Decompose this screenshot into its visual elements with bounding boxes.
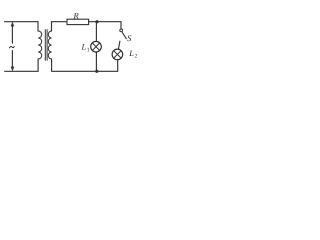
switch S blade (122, 33, 126, 39)
svg-text:2: 2 (135, 54, 138, 60)
svg-text:R: R (73, 11, 80, 21)
arrowhead down (11, 67, 14, 71)
arrowhead up (11, 22, 14, 26)
lamp L1 top lead (95, 22, 97, 42)
AC tilde symbol (10, 46, 15, 47)
svg-text:L: L (128, 48, 134, 58)
AC source ~ terminal line upper (11, 25, 13, 44)
AC source ~ terminal line lower (11, 51, 13, 69)
transformer secondary coil (48, 31, 51, 59)
transformer primary bottom lead (37, 59, 39, 71)
transformer secondary bottom lead (51, 59, 53, 71)
wire secondary top to resistor (52, 21, 68, 23)
wire switch to lamp L2 (118, 41, 120, 49)
node junction top (95, 20, 98, 23)
resistor R box (67, 19, 89, 24)
wire resistor to node (89, 21, 97, 23)
svg-text:S: S (127, 33, 132, 43)
transformer primary top lead (37, 22, 39, 31)
wire top-left segment (5, 21, 38, 23)
transformer core line right (46, 30, 48, 61)
wire node to switch corner (97, 22, 121, 29)
transformer core line left (44, 30, 46, 61)
lamp L1 bottom lead (95, 52, 97, 71)
wire bottom-right segment (52, 70, 118, 72)
switch S contact circle (120, 29, 123, 32)
lamp L1 (91, 41, 102, 52)
svg-text:1: 1 (87, 47, 90, 53)
node junction bottom (95, 70, 98, 73)
lamp L2 (112, 49, 123, 60)
wire bottom-left segment (5, 70, 38, 72)
svg-text:L: L (81, 42, 87, 52)
transformer primary coil (38, 31, 42, 59)
lamp L2 bottom lead (117, 60, 119, 72)
transformer secondary top lead (51, 22, 53, 31)
